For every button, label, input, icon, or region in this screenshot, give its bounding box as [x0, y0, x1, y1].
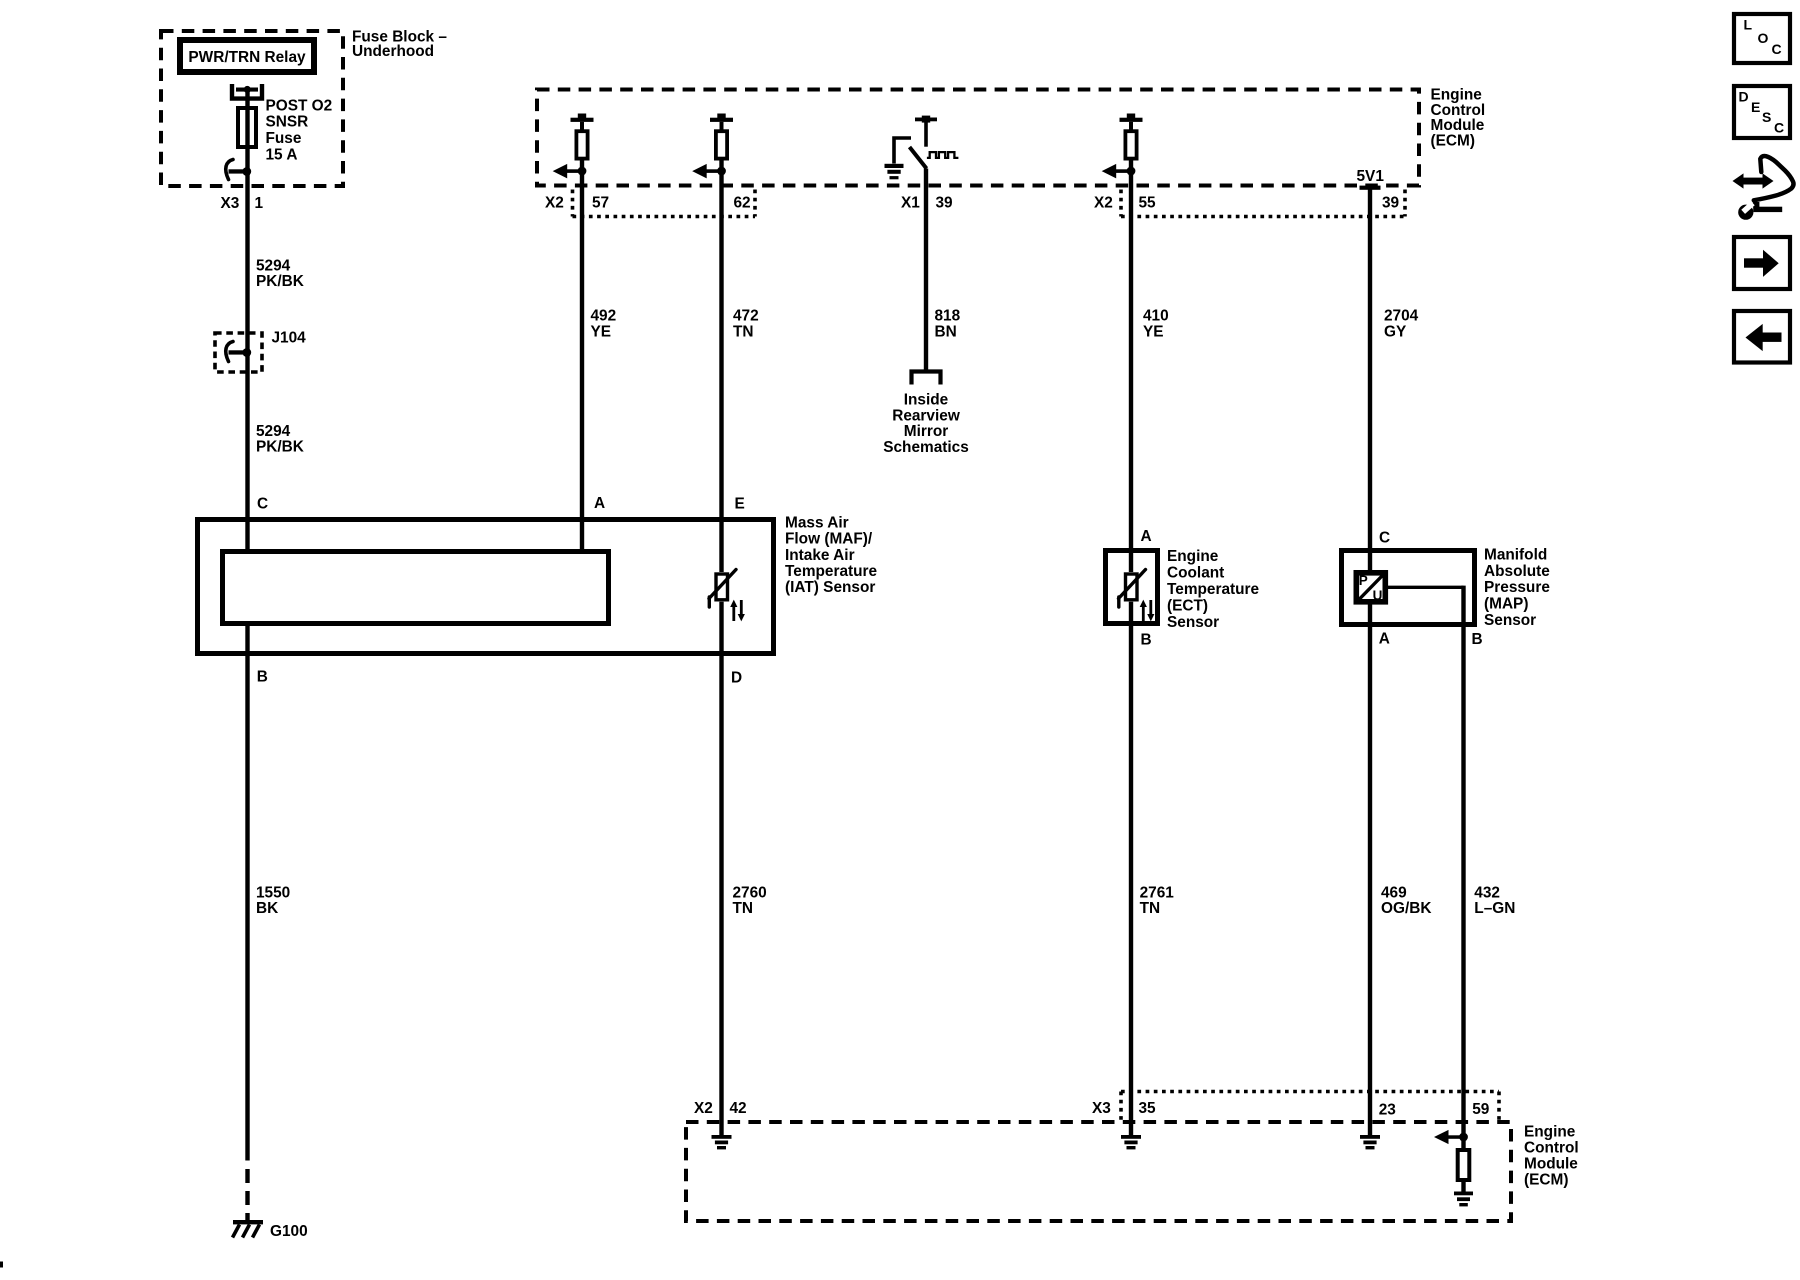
pin C label (MAP)	[1379, 530, 1390, 547]
icon box DESC	[1734, 86, 1790, 138]
MAP sensor name label	[1484, 546, 1550, 629]
label 410 YE	[1143, 307, 1169, 340]
MAP internal link to pin B	[1388, 586, 1464, 589]
ECM (bottom) enclosure (dashed)	[686, 1122, 1511, 1221]
icon box LOC	[1734, 14, 1790, 63]
icon box arrow left	[1734, 311, 1790, 363]
svg-text:C: C	[1379, 530, 1390, 547]
pin E label	[735, 495, 745, 512]
svg-text:PK/BK: PK/BK	[256, 438, 304, 455]
svg-text:(ECM): (ECM)	[1524, 1171, 1568, 1188]
svg-text:A: A	[1141, 528, 1152, 545]
svg-text:39: 39	[936, 194, 953, 211]
ECT thermistor (variable resistor)	[1119, 570, 1155, 622]
wire 2760 TN (IAT D to ECM 42)	[719, 602, 723, 1122]
wire 469 OG/BK (MAP A to ECM 23)	[1368, 605, 1372, 1123]
wire 1550 BK (MAF B to G100)	[245, 626, 249, 1220]
fuse bottom clip	[226, 160, 251, 180]
svg-text:J104: J104	[272, 329, 307, 346]
ECM driver / pull-up for ECT signal (pin 55)	[1102, 114, 1143, 179]
svg-text:Temperature: Temperature	[785, 563, 878, 580]
wire 432 L-GN (MAP B to ECM 59)	[1461, 586, 1465, 1148]
label 469 OG/BK	[1381, 884, 1431, 917]
ECM signal switch (pin X1-39)	[885, 116, 959, 180]
splice J104 (dashed box + clip)	[215, 333, 262, 372]
connector X2/X1 (pins 55/39) dotted outline	[1121, 190, 1405, 217]
svg-text:L–GN: L–GN	[1474, 900, 1515, 917]
svg-text:Control: Control	[1524, 1139, 1579, 1156]
pin A label (ECT)	[1141, 528, 1152, 545]
scan artifact bottom-left	[0, 1262, 3, 1268]
pin B label (ECT)	[1141, 631, 1152, 648]
svg-text:Coolant: Coolant	[1167, 564, 1224, 581]
svg-text:5294: 5294	[256, 257, 291, 274]
svg-text:1: 1	[255, 195, 264, 212]
svg-text:(MAP): (MAP)	[1484, 596, 1528, 613]
ECM internal ground (pin 35)	[1121, 1122, 1141, 1149]
svg-text:5V1: 5V1	[1357, 168, 1385, 185]
svg-text:GY: GY	[1384, 323, 1407, 340]
ground G100 (chassis)	[233, 1220, 264, 1238]
pin label 35	[1139, 1100, 1157, 1117]
ECM (top) enclosure (dashed)	[537, 90, 1419, 186]
label Inside Rearview Mirror Schematics	[883, 391, 969, 456]
svg-text:2761: 2761	[1140, 884, 1175, 901]
svg-text:Underhood: Underhood	[352, 43, 434, 60]
svg-text:POST O2: POST O2	[266, 97, 333, 114]
ECT sensor box	[1106, 551, 1158, 624]
pin label 42	[730, 1100, 747, 1117]
pin label X2	[545, 194, 564, 211]
svg-text:15 A: 15 A	[266, 146, 298, 163]
svg-text:E: E	[1751, 99, 1760, 115]
svg-text:Fuse: Fuse	[266, 130, 302, 147]
pin label X1	[901, 194, 920, 211]
label 2704 GY	[1384, 307, 1419, 340]
MAF/IAT sensor name label	[785, 514, 878, 596]
svg-text:YE: YE	[591, 323, 612, 340]
icon wiring repair (double arrow, harness, wrench)	[1733, 156, 1794, 220]
pin A label	[594, 495, 605, 512]
pin B label (MAP)	[1472, 631, 1483, 648]
svg-text:(ECT): (ECT)	[1167, 597, 1208, 614]
ECM driver / pull-up for IAT signal (pin 62)	[692, 114, 733, 179]
svg-text:Flow (MAF)/: Flow (MAF)/	[785, 531, 873, 548]
pin label X2 (bottom)	[694, 1100, 713, 1117]
wire 2761 TN (ECT B to ECM 35)	[1129, 602, 1133, 1122]
svg-text:X2: X2	[694, 1100, 713, 1117]
svg-text:BK: BK	[256, 900, 278, 917]
wire 410 YE (ECM 55 to ECT A)	[1129, 161, 1133, 573]
pin A label (MAP)	[1379, 631, 1390, 648]
svg-text:U: U	[1373, 588, 1383, 603]
svg-text:C: C	[1772, 41, 1782, 57]
svg-text:X2: X2	[1094, 194, 1113, 211]
ECM (top) name label	[1431, 86, 1486, 149]
svg-text:C: C	[257, 496, 268, 513]
connector X3 (pins 35/23/59) dotted outline	[1121, 1092, 1499, 1121]
MAF sensor inner element	[223, 552, 609, 624]
svg-text:E: E	[735, 495, 745, 512]
svg-text:A: A	[1379, 631, 1390, 648]
svg-text:TN: TN	[1140, 900, 1161, 917]
svg-text:2760: 2760	[733, 884, 767, 901]
svg-text:O: O	[1758, 30, 1769, 46]
svg-text:Temperature: Temperature	[1167, 581, 1260, 598]
svg-text:62: 62	[734, 194, 751, 211]
relay K: PWR/TRN Relay box	[180, 40, 314, 72]
pin label X2 (right)	[1094, 194, 1113, 211]
off-page connector to mirror schematics	[912, 372, 941, 385]
ECM pin 59 internal pull-down	[1434, 1130, 1473, 1207]
ECM 5V1 reference terminal	[1357, 168, 1385, 190]
svg-text:39: 39	[1382, 194, 1399, 211]
label 492 YE	[591, 307, 617, 340]
svg-text:Inside: Inside	[904, 391, 949, 408]
svg-text:Intake Air: Intake Air	[785, 547, 855, 564]
ECT sensor name label	[1167, 548, 1260, 631]
fuse block - underhood enclosure (dashed)	[161, 31, 343, 186]
ECM internal ground (pin 23)	[1360, 1122, 1380, 1149]
svg-text:L: L	[1744, 17, 1753, 33]
svg-text:B: B	[257, 669, 268, 686]
svg-text:(ECM): (ECM)	[1431, 133, 1475, 150]
pin label 55	[1139, 194, 1157, 211]
svg-text:Mirror: Mirror	[904, 423, 948, 440]
MAP transducer symbol P/U	[1356, 573, 1385, 603]
svg-text:X2: X2	[545, 194, 564, 211]
wire: relay to fuse (net B+)	[245, 90, 249, 172]
svg-text:X3: X3	[1092, 1100, 1111, 1117]
svg-text:SNSR: SNSR	[266, 114, 309, 131]
svg-text:23: 23	[1379, 1102, 1396, 1119]
svg-text:Engine: Engine	[1167, 548, 1219, 565]
label 5294 PK/BK (lower)	[256, 423, 304, 456]
svg-text:59: 59	[1472, 1101, 1489, 1118]
fuse F: POST O2 SNSR Fuse 15 A (body)	[238, 108, 256, 147]
label 432 L-GN	[1474, 884, 1515, 917]
svg-text:Sensor: Sensor	[1167, 614, 1219, 631]
svg-text:35: 35	[1139, 1100, 1157, 1117]
svg-text:818: 818	[935, 307, 961, 324]
pin label 39	[936, 194, 953, 211]
ECM driver / pull-up for MAF signal (pin 57)	[553, 114, 594, 179]
svg-text:G100: G100	[270, 1223, 308, 1240]
connector X3 pin 1 labels	[221, 195, 264, 212]
svg-text:OG/BK: OG/BK	[1381, 900, 1431, 917]
svg-text:B: B	[1141, 631, 1152, 648]
pin B label	[257, 669, 268, 686]
label 2761 TN	[1140, 884, 1175, 917]
svg-text:TN: TN	[733, 900, 754, 917]
svg-text:492: 492	[591, 307, 617, 324]
svg-text:B: B	[1472, 631, 1483, 648]
MAF/IAT sensor outer box	[198, 520, 774, 654]
svg-text:D: D	[731, 670, 742, 687]
fuse value label	[266, 97, 333, 163]
svg-text:Manifold: Manifold	[1484, 546, 1547, 563]
pin label X3 (bottom)	[1092, 1100, 1111, 1117]
svg-text:C: C	[1774, 120, 1784, 136]
svg-text:Mass Air: Mass Air	[785, 514, 849, 531]
label 818 BN	[935, 307, 961, 340]
ECM internal ground (pin 42)	[712, 1122, 732, 1149]
connector X2 (pins 57/62) dotted outline	[573, 190, 756, 217]
pin D label	[731, 670, 742, 687]
wire 818 BN (ECM X1-39 to mirror schematics)	[924, 169, 928, 372]
pin label 62	[734, 194, 751, 211]
svg-text:(IAT) Sensor: (IAT) Sensor	[785, 579, 875, 596]
pin label 39 (5V1)	[1382, 194, 1399, 211]
label J104	[272, 329, 307, 346]
pin label 57	[592, 194, 609, 211]
svg-text:55: 55	[1139, 194, 1157, 211]
svg-text:Schematics: Schematics	[883, 439, 969, 456]
svg-text:X1: X1	[901, 194, 920, 211]
wire 472 TN (ECM 62 to IAT E)	[719, 161, 723, 573]
svg-text:410: 410	[1143, 307, 1169, 324]
svg-text:S: S	[1762, 109, 1771, 125]
wire 2704 GY (ECM 5V1-39 to MAP C)	[1368, 188, 1372, 571]
IAT thermistor (variable resistor)	[709, 570, 745, 622]
svg-text:Module: Module	[1524, 1155, 1578, 1172]
svg-text:A: A	[594, 495, 605, 512]
label 5294 PK/BK (upper)	[256, 257, 304, 290]
svg-text:57: 57	[592, 194, 609, 211]
svg-text:Absolute: Absolute	[1484, 563, 1550, 580]
label G100	[270, 1223, 308, 1240]
label 472 TN	[733, 307, 759, 340]
svg-text:D: D	[1739, 89, 1749, 105]
svg-text:P: P	[1359, 573, 1368, 588]
svg-text:PK/BK: PK/BK	[256, 273, 304, 290]
svg-text:469: 469	[1381, 884, 1407, 901]
svg-text:Pressure: Pressure	[1484, 579, 1550, 596]
pin label 59	[1472, 1101, 1489, 1118]
svg-text:2704: 2704	[1384, 307, 1419, 324]
svg-text:Engine: Engine	[1524, 1123, 1576, 1140]
ECM (bottom) name label	[1524, 1123, 1579, 1188]
svg-text:BN: BN	[935, 323, 957, 340]
svg-text:432: 432	[1474, 884, 1500, 901]
svg-text:5294: 5294	[256, 423, 291, 440]
svg-text:1550: 1550	[256, 884, 290, 901]
label 1550 BK	[256, 884, 290, 917]
wire 492 YE (ECM 57 to MAF A)	[580, 161, 584, 550]
svg-text:Sensor: Sensor	[1484, 612, 1536, 629]
svg-text:Rearview: Rearview	[892, 407, 960, 424]
svg-text:42: 42	[730, 1100, 747, 1117]
label 2760 TN	[733, 884, 767, 917]
svg-text:YE: YE	[1143, 323, 1164, 340]
MAP sensor box	[1342, 551, 1475, 625]
fuse block label	[352, 28, 447, 60]
relay output terminal (cup + T)	[232, 84, 262, 99]
svg-text:TN: TN	[733, 323, 754, 340]
svg-text:472: 472	[733, 307, 759, 324]
icon box arrow right	[1734, 237, 1790, 289]
svg-text:X3: X3	[221, 195, 240, 212]
wire 5294 PK/BK (fuse block to J104 to MAF pin C)	[245, 172, 249, 550]
pin label 23	[1379, 1102, 1396, 1119]
pin C label	[257, 496, 268, 513]
svg-text:PWR/TRN Relay: PWR/TRN Relay	[188, 49, 306, 66]
